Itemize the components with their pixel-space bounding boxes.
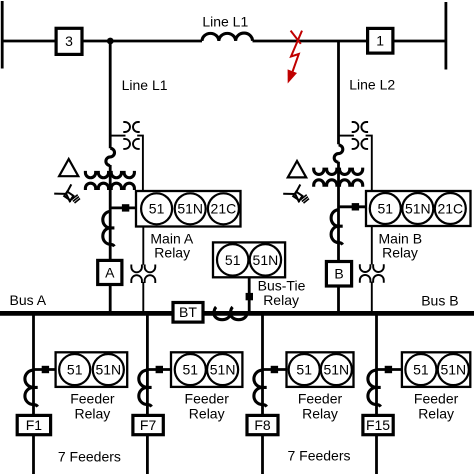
- wire relay branch F8: [263, 368, 287, 371]
- PT right winding a: [360, 264, 384, 272]
- grounded wye symbol T1: [54, 184, 80, 203]
- relay element 51 (F1): [59, 354, 90, 385]
- delta winding symbol T1: [59, 159, 78, 176]
- relay Bus-Tie box: [213, 242, 285, 277]
- svg-text:51N: 51N: [210, 362, 236, 378]
- CT on right feed: [331, 210, 338, 243]
- grounded wye symbol T2: [283, 185, 309, 204]
- relay element 51 (F8): [289, 354, 320, 385]
- relay Feeder box F8: [287, 352, 354, 387]
- fault lightning bolt: [291, 31, 302, 72]
- wire relay branch left: [110, 206, 136, 209]
- svg-text:B: B: [334, 266, 343, 282]
- bus tie breaker BT: [173, 303, 203, 323]
- svg-text:Line L1: Line L1: [202, 13, 248, 29]
- svg-text:F15: F15: [366, 417, 390, 433]
- CT left winding a: [123, 122, 130, 149]
- svg-text:51N: 51N: [253, 252, 279, 268]
- relay element 51 (F7): [175, 354, 206, 385]
- relay Feeder box F15: [402, 352, 470, 387]
- wire right feed below transformer: [337, 162, 340, 262]
- CT connection square Bus-Tie: [246, 293, 253, 300]
- breaker F15: [363, 415, 393, 434]
- breaker F8: [247, 415, 278, 434]
- svg-text:Feeder: Feeder: [414, 391, 459, 407]
- relay element 51N (F15): [438, 354, 469, 385]
- svg-text:Relay: Relay: [75, 406, 111, 422]
- svg-text:Bus A: Bus A: [10, 292, 47, 308]
- wire relay branch F15: [377, 368, 402, 371]
- wire relay branch F1: [34, 368, 56, 371]
- wire left feed below transformer: [109, 165, 112, 260]
- svg-text:21C: 21C: [211, 201, 237, 217]
- PT left winding b: [131, 275, 155, 283]
- svg-text:A: A: [105, 264, 115, 280]
- svg-text:3: 3: [65, 33, 73, 49]
- relay element 51N (F1): [93, 354, 124, 385]
- breaker F7: [133, 415, 163, 434]
- delta winding symbol T2: [288, 161, 306, 177]
- wire top line right segment: [253, 40, 446, 43]
- svg-text:Line L1: Line L1: [122, 77, 168, 93]
- svg-text:51N: 51N: [323, 362, 349, 378]
- svg-text:Line L2: Line L2: [349, 77, 395, 93]
- relay element 51N (F8): [321, 354, 352, 385]
- svg-text:51N: 51N: [440, 362, 466, 378]
- wire right feed upper: [337, 41, 340, 144]
- CT connection square F15: [385, 366, 392, 373]
- svg-text:Relay: Relay: [154, 244, 190, 260]
- svg-text:Feeder: Feeder: [185, 391, 230, 407]
- svg-text:Feeder: Feeder: [298, 391, 343, 407]
- relay element 21C (Main B): [435, 193, 466, 224]
- source bar left: [1, 1, 4, 69]
- wire CT branch left: [110, 135, 125, 137]
- svg-text:51N: 51N: [95, 362, 121, 378]
- wire feeder F1: [32, 316, 35, 474]
- CT left winding b: [133, 122, 140, 149]
- wire breaker A to Bus A: [109, 285, 112, 312]
- svg-text:7 Feeders: 7 Feeders: [287, 448, 350, 464]
- relay Main A box: [136, 191, 241, 227]
- wire feeder F15: [375, 316, 378, 474]
- breaker F1: [17, 415, 50, 434]
- inductor Line L1 impedance: [202, 33, 253, 41]
- svg-text:51: 51: [183, 362, 199, 378]
- CT on feeder F15: [368, 370, 377, 404]
- wire CT right to relay: [366, 136, 372, 191]
- breaker A: [98, 260, 122, 284]
- svg-text:51: 51: [225, 252, 241, 268]
- relay element 51N (Main B): [402, 193, 433, 224]
- transformer T1 primary winding: [85, 171, 134, 178]
- svg-text:7 Feeders: 7 Feeders: [58, 448, 121, 464]
- svg-text:51: 51: [149, 201, 165, 217]
- wire Bus-Tie relay to bus: [248, 277, 251, 311]
- Bus A / Bus B busbar: [0, 311, 474, 316]
- svg-text:51N: 51N: [405, 200, 431, 216]
- relay element 51 (Main A): [141, 193, 172, 224]
- relay element 51 (Main B): [370, 193, 401, 224]
- transformer T2 secondary winding: [314, 180, 363, 187]
- breaker B: [326, 262, 351, 287]
- fault X mark: [291, 31, 301, 44]
- wire PT right lower: [371, 282, 373, 312]
- wire feeder F7: [146, 316, 149, 474]
- svg-text:51: 51: [67, 362, 83, 378]
- svg-text:Relay: Relay: [302, 406, 338, 422]
- svg-text:F1: F1: [26, 417, 43, 433]
- squiggle left feed: [106, 148, 115, 165]
- svg-text:Bus B: Bus B: [421, 293, 458, 309]
- breaker 1: [368, 28, 393, 53]
- wire PT left lower: [142, 282, 144, 312]
- relay Main B box: [366, 191, 471, 226]
- relay element 51 (F15): [405, 354, 436, 385]
- svg-text:1: 1: [376, 33, 384, 49]
- relay element 51N (Main A): [175, 193, 206, 224]
- CT on feeder F1: [25, 370, 34, 404]
- relay element 21C (Main A): [208, 193, 239, 224]
- relay element 51 (Bus-Tie): [217, 244, 248, 275]
- CT connection square F7: [156, 366, 163, 373]
- CT right winding a: [352, 122, 359, 149]
- wire CT left to relay: [137, 136, 143, 191]
- wire CT branch right: [339, 135, 354, 137]
- svg-text:BT: BT: [179, 304, 197, 320]
- wire relay branch right: [339, 205, 367, 208]
- CT on feeder F7: [139, 370, 148, 404]
- wire relay branch F7: [147, 368, 171, 371]
- svg-text:Feeder: Feeder: [70, 391, 115, 407]
- svg-text:51: 51: [378, 200, 394, 216]
- relay Feeder box F1: [56, 352, 128, 387]
- CT connection square F1: [42, 366, 49, 373]
- svg-text:Relay: Relay: [189, 406, 225, 422]
- relay Feeder box F7: [171, 352, 242, 387]
- svg-text:Relay: Relay: [418, 406, 454, 422]
- wire top line left segment: [2, 40, 202, 43]
- svg-text:Relay: Relay: [382, 244, 418, 260]
- wire PT left upper: [142, 227, 144, 265]
- CT on left feed: [103, 212, 110, 245]
- CT on bus tie: [214, 313, 247, 319]
- CT connection square F8: [271, 366, 278, 373]
- wire feeder F8: [261, 316, 264, 474]
- node junction dot at Line L1 tap: [107, 38, 114, 45]
- svg-text:51: 51: [413, 362, 429, 378]
- fault arrowhead: [288, 69, 297, 83]
- CT secondary connection square right: [352, 203, 359, 210]
- svg-text:F7: F7: [140, 417, 157, 433]
- svg-text:51N: 51N: [177, 201, 203, 217]
- breaker 3: [56, 28, 82, 54]
- relay element 51N (F7): [207, 354, 238, 385]
- transformer T1 secondary winding: [85, 183, 134, 190]
- CT right winding b: [361, 122, 368, 149]
- PT left winding a: [131, 265, 155, 273]
- wire left feed upper: [109, 41, 112, 148]
- svg-text:21C: 21C: [437, 200, 463, 216]
- transformer T2 primary winding: [314, 168, 363, 175]
- svg-text:51: 51: [296, 362, 312, 378]
- source bar right: [444, 2, 447, 70]
- PT right winding b: [360, 275, 384, 283]
- squiggle right feed: [334, 145, 343, 162]
- CT secondary connection square left: [122, 204, 129, 211]
- svg-text:F8: F8: [254, 417, 271, 433]
- relay element 51N (Bus-Tie): [250, 244, 281, 275]
- wire breaker B to Bus B: [337, 286, 340, 312]
- svg-text:Relay: Relay: [263, 292, 299, 308]
- wire PT right upper: [371, 226, 373, 264]
- CT on feeder F8: [254, 370, 263, 404]
